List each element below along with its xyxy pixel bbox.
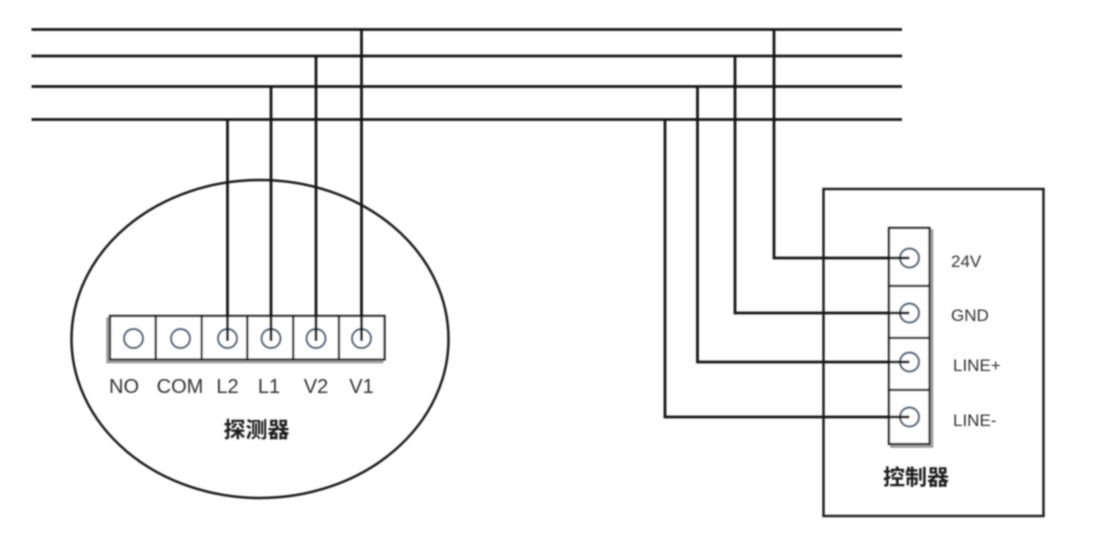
- svg-text:NO: NO: [109, 376, 139, 398]
- wire 24V from bus line 1: [774, 30, 910, 259]
- detector screw COM: [171, 329, 190, 348]
- svg-text:L1: L1: [258, 376, 280, 398]
- detector name 探测器 (as paths): [224, 419, 245, 440]
- wire V2 to bus line 2: [315, 56, 318, 341]
- controller screw GND: [900, 304, 919, 323]
- detector screw V1: [352, 329, 371, 348]
- svg-text:24V: 24V: [951, 252, 982, 271]
- detector terminal V1: [339, 316, 385, 360]
- detector screw NO: [124, 329, 143, 348]
- controller screw LINE-: [900, 408, 919, 427]
- wire V1 to bus line 1: [360, 30, 363, 342]
- detector terminal V2: [293, 316, 339, 360]
- detector screw V2: [307, 329, 326, 348]
- controller terminal LINE-: [889, 390, 930, 444]
- controller screw LINE+: [900, 353, 919, 372]
- controller terminal 24V: [889, 228, 930, 286]
- detector terminal block shadow: [108, 319, 383, 363]
- wire LINE+ from bus line 3: [698, 87, 910, 363]
- detector terminal L1: [247, 316, 293, 360]
- detector terminal L2: [202, 316, 248, 360]
- bus line 1 (24V / V1 net): [32, 28, 903, 31]
- svg-text:COM: COM: [157, 376, 204, 398]
- wire GND from bus line 2: [735, 56, 910, 313]
- svg-text:L2: L2: [216, 376, 238, 398]
- wire LINE- from bus line 4: [665, 120, 910, 418]
- svg-text:GND: GND: [951, 306, 989, 325]
- detector screw L2: [218, 329, 237, 348]
- detector outline (ellipse): [72, 180, 449, 498]
- bus line 3 (LINE+ / L1 net): [32, 85, 903, 88]
- detector terminal COM: [156, 316, 202, 360]
- svg-text:V2: V2: [304, 376, 328, 398]
- detector terminal NO: [110, 316, 156, 360]
- wire L1 to bus line 3: [270, 87, 273, 342]
- controller terminal LINE+: [889, 338, 930, 390]
- controller box: [824, 189, 1044, 516]
- svg-text:LINE+: LINE+: [953, 356, 1001, 375]
- svg-text:V1: V1: [349, 376, 373, 398]
- bus line 2 (GND / V2 net): [32, 55, 903, 58]
- controller screw 24V: [900, 249, 919, 268]
- detector screw L1: [262, 329, 281, 348]
- bus line 4 (LINE- / L2 net): [32, 118, 903, 121]
- wire L2 to bus line 4: [226, 120, 229, 342]
- controller name 控制器 (as paths): [884, 466, 905, 486]
- svg-text:LINE-: LINE-: [953, 411, 996, 430]
- controller terminal GND: [889, 286, 930, 338]
- controller terminal block shadow: [892, 231, 933, 447]
